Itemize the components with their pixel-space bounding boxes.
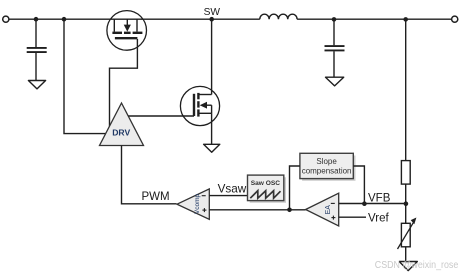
svg-text:Vsaw: Vsaw — [218, 182, 247, 195]
svg-text:VFB: VFB — [368, 192, 391, 204]
wire input cap — [35, 19, 37, 47]
wire PWM minus input to Saw OSC — [209, 195, 247, 197]
node junction feedback tap — [403, 17, 408, 22]
transistor Q1 PMOS high-side — [107, 11, 147, 51]
wire EA minus input VFB net — [339, 203, 406, 205]
ground divider — [399, 262, 417, 271]
comparator Vcomp PWM — [177, 189, 209, 219]
wire Q2 source to ground — [211, 113, 213, 144]
op-amp DRV driver — [100, 103, 144, 146]
node junction VFB divider — [404, 201, 409, 206]
wire PWM plus input to EA output — [209, 209, 305, 211]
node junction SW — [209, 17, 214, 22]
wire top rail left — [9, 18, 260, 20]
node junction slope comp injection — [287, 208, 292, 213]
node junction output cap — [332, 17, 337, 22]
node junction at input cap — [34, 17, 39, 22]
wire slope comp right to VFB — [353, 166, 364, 204]
wire EA plus input Vref — [339, 216, 366, 218]
op-amp EA error amplifier — [306, 193, 339, 226]
svg-text:Vref: Vref — [368, 213, 389, 225]
svg-text:compensation: compensation — [302, 167, 352, 176]
capacitor C2 — [325, 46, 345, 77]
ground output cap — [326, 77, 344, 86]
resistor R2 variable — [398, 218, 417, 250]
ground input cap — [28, 81, 45, 89]
node junction VFB slope tap — [362, 201, 367, 206]
wire DRV output to Q2 gate — [128, 115, 194, 117]
box Saw OSC — [248, 175, 287, 203]
wire SW to Q2 drain — [211, 19, 213, 94]
resistor R1 — [401, 161, 410, 185]
wire DRV input from PWM comparator — [122, 146, 177, 204]
wire DRV supply vertical — [64, 19, 106, 133]
wire output cap — [333, 19, 335, 45]
svg-text:CSDN @weixin_rose: CSDN @weixin_rose — [375, 260, 459, 271]
svg-text:Slope: Slope — [316, 157, 337, 166]
svg-text:Vcomp: Vcomp — [194, 194, 201, 215]
capacitor C1 — [27, 48, 47, 80]
node junction at DRV supply — [62, 17, 67, 22]
wire feedback divider top — [405, 19, 407, 160]
wire R2 to ground — [405, 247, 407, 261]
input terminal — [3, 16, 9, 22]
wire R1 to R2 — [405, 184, 407, 223]
wire slope comp left to PWM input — [290, 166, 300, 210]
svg-text:SW: SW — [204, 7, 221, 18]
output terminal — [452, 16, 458, 22]
svg-text:EA: EA — [325, 205, 332, 215]
inductor L1 — [260, 14, 297, 19]
svg-text:PWM: PWM — [142, 191, 170, 203]
svg-text:DRV: DRV — [112, 128, 130, 138]
svg-text:Saw OSC: Saw OSC — [251, 180, 281, 187]
wire Q1 gate to DRV — [110, 39, 138, 126]
ground Q2 — [204, 144, 220, 152]
wire top rail right — [297, 18, 451, 20]
box Slope compensation — [300, 153, 356, 181]
transistor Q2 NMOS low-side — [180, 86, 219, 125]
